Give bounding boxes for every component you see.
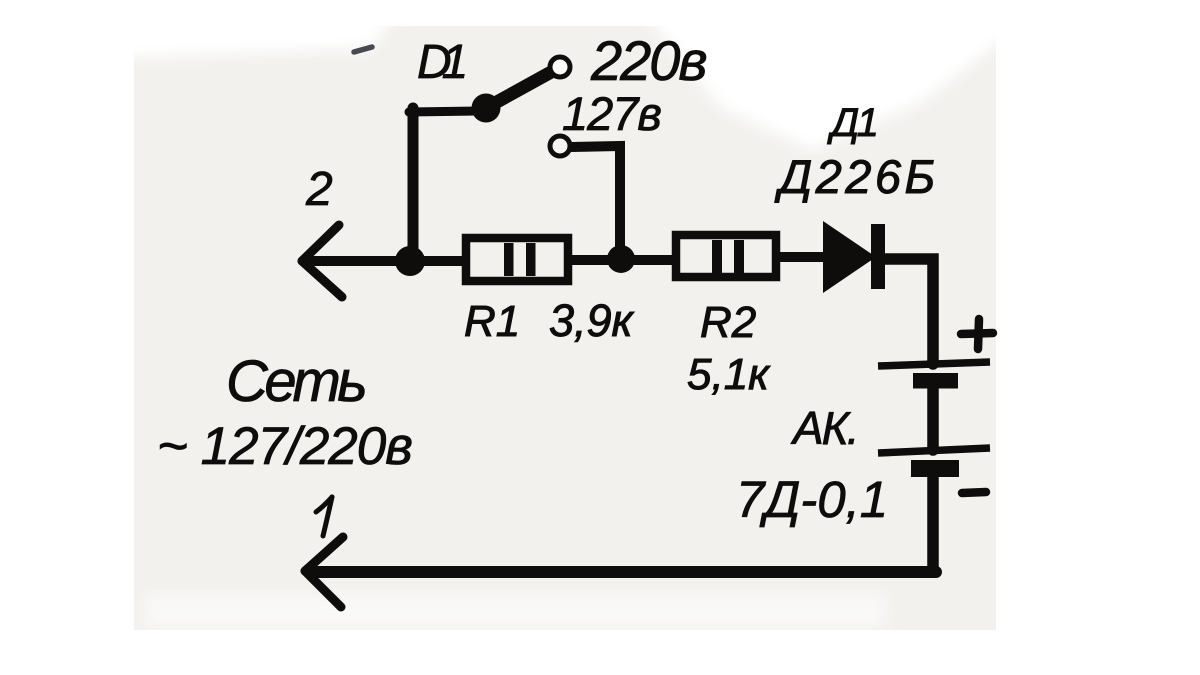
svg-text:7Д-0,1: 7Д-0,1 bbox=[736, 471, 888, 528]
terminal 2 arrow bbox=[302, 225, 342, 297]
paper top-right white wedge bbox=[640, 4, 1010, 150]
wire: R1 to node B bbox=[568, 255, 674, 265]
wire: switch vertical from stub to node A bbox=[408, 108, 419, 258]
diode D1 triangle bbox=[823, 221, 876, 293]
svg-text:5,1к: 5,1к bbox=[687, 350, 771, 399]
wire: diode to corner and down to battery bbox=[884, 259, 933, 364]
node B junction bbox=[607, 245, 635, 273]
paper background bbox=[134, 26, 996, 630]
svg-text:Сеть: Сеть bbox=[226, 349, 365, 414]
svg-text:D1: D1 bbox=[417, 36, 468, 89]
svg-text:2: 2 bbox=[305, 163, 333, 216]
battery cell 1 long plate bbox=[878, 362, 990, 366]
label 1 bbox=[316, 497, 332, 536]
contact 220V circle bbox=[550, 57, 570, 77]
wire: battery bottom down to bottom rail bbox=[927, 476, 939, 570]
minus sign bbox=[962, 492, 986, 493]
resistor R2 inner bars bbox=[712, 240, 744, 273]
smudge dash bbox=[354, 47, 372, 52]
wire: arrow 2 to R1 bbox=[303, 256, 464, 266]
svg-text:R2: R2 bbox=[700, 298, 756, 347]
plus sign bbox=[961, 319, 993, 349]
paper bottom light band bbox=[145, 594, 885, 628]
wire: 127V contact to vertical drop to node B bbox=[572, 146, 620, 257]
battery cell 2 short thick plate bbox=[911, 460, 959, 477]
svg-text:~ 127/220в: ~ 127/220в bbox=[157, 417, 412, 476]
battery cell 2 long plate bbox=[878, 448, 990, 453]
svg-text:127в: 127в bbox=[562, 87, 661, 140]
wire: stub to switch pivot bbox=[409, 111, 478, 112]
node A junction bbox=[395, 246, 425, 276]
svg-text:3,9к: 3,9к bbox=[549, 295, 635, 346]
terminal 1 arrow bbox=[305, 537, 343, 607]
battery cell 1 short thick plate bbox=[913, 373, 958, 389]
wire: R2 to diode bbox=[776, 252, 827, 262]
svg-text:220в: 220в bbox=[590, 29, 706, 92]
wire: bottom rail (line 1) bbox=[309, 566, 936, 578]
wire: battery mid between cells bbox=[927, 387, 939, 450]
contact 127V circle bbox=[550, 136, 570, 156]
svg-text:Д226Б: Д226Б bbox=[774, 150, 939, 203]
switch B1 pivot bbox=[472, 94, 501, 123]
switch B1 lever bbox=[486, 71, 553, 108]
paper top-left white band bbox=[120, 8, 398, 58]
resistor R1 body bbox=[466, 238, 568, 281]
resistor R2 body bbox=[676, 235, 776, 277]
svg-text:Д1: Д1 bbox=[827, 101, 876, 145]
svg-text:АК.: АК. bbox=[790, 402, 858, 454]
svg-text:R1: R1 bbox=[464, 297, 520, 346]
resistor R1 inner bars bbox=[504, 243, 536, 276]
diode D1 cathode bar bbox=[871, 224, 885, 289]
